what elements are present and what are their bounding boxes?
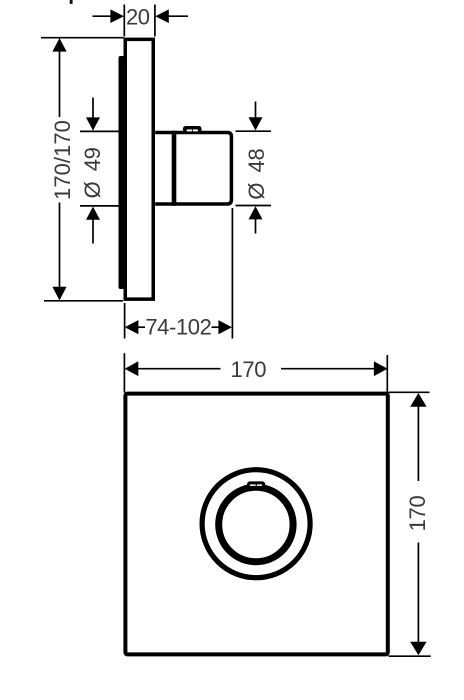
dimension Ø49: lower leader + arrowhead (points up) — [86, 207, 100, 220]
dimension 170 (top): right line segment + arrowhead — [281, 368, 375, 370]
dimension Ø48: bottom extension line — [236, 205, 272, 207]
dimension 20: left leader + arrowhead — [93, 15, 112, 17]
dimension 170 (top): left arrowhead + line segment — [125, 361, 139, 376]
dimension 170/170: dimension line lower segment + arrow — [59, 203, 61, 289]
dimension Ø49: top extension line — [80, 130, 121, 132]
dimension Ø48: top extension line — [236, 130, 272, 132]
dimension 74-102: left arrowhead — [125, 320, 139, 334]
wall sleeve (black strip behind plate) — [119, 56, 125, 289]
square face plate (front view) — [125, 394, 387, 655]
dimension 170/170: bottom extension line — [44, 300, 123, 302]
dimension 170 (top): right extension line — [386, 355, 388, 393]
dimension 170 (right): top arrowhead + line segment — [410, 393, 426, 407]
outer circle (escutcheon ring) — [202, 470, 310, 578]
svg-text:170: 170 — [231, 357, 267, 382]
svg-text:74-102: 74-102 — [145, 314, 211, 339]
handle grip tab (front view) — [247, 481, 265, 489]
dimension Ø48: upper leader + arrowhead (points down) — [255, 102, 257, 119]
svg-text:Ø 48: Ø 48 — [244, 149, 269, 200]
dimension 170/170: dimension line upper segment + arrow — [52, 38, 66, 52]
svg-text:170/170: 170/170 — [50, 120, 75, 200]
svg-text:170: 170 — [405, 496, 430, 532]
dimension Ø49: upper leader + arrowhead (points down) — [92, 98, 94, 119]
svg-text:Ø 49: Ø 49 — [80, 147, 105, 198]
escutcheon plate (side profile) — [125, 39, 153, 299]
dimension Ø48: lower leader + arrowhead (points up) — [249, 206, 263, 219]
inner circle (handle) — [219, 487, 293, 561]
dimension 20: right extension line — [154, 5, 156, 37]
dimension 20: left extension line — [123, 5, 125, 37]
dimension 170 (right): top extension line — [389, 391, 430, 393]
cropped glyph fragment top-left — [70, 0, 73, 4]
dimension 74-102: left extension line — [124, 303, 126, 339]
svg-text:20: 20 — [126, 5, 150, 30]
knob divider (stem/knob junction) — [172, 131, 177, 206]
dimension 74-102: right arrowhead — [218, 320, 232, 334]
dimension 170 (top): left extension line — [123, 353, 125, 392]
handle stem + knob body — [155, 132, 231, 204]
dimension 74-102: right extension line — [231, 208, 233, 339]
knob grip tab (side view) — [183, 126, 202, 133]
dimension 170/170: top extension line — [41, 37, 124, 39]
dimension 170 (right): bottom line segment + arrowhead — [417, 543, 419, 644]
dimension 20: right leader + arrowhead — [168, 15, 188, 17]
dimension Ø49: bottom extension line — [80, 205, 121, 207]
dimension 170 (right): bottom extension line — [389, 655, 431, 657]
